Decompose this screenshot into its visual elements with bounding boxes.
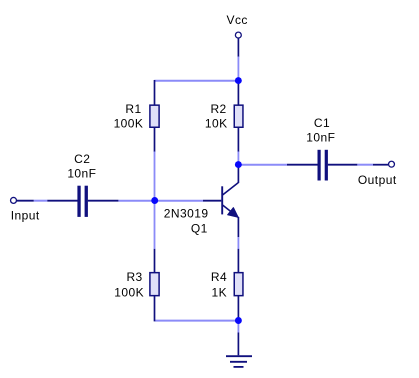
svg-text:Input: Input: [11, 209, 40, 223]
svg-text:R3: R3: [126, 270, 142, 284]
svg-text:R1: R1: [125, 102, 141, 116]
svg-text:C1: C1: [314, 116, 330, 130]
svg-text:1K: 1K: [212, 285, 228, 299]
svg-text:100K: 100K: [114, 285, 144, 299]
svg-text:100K: 100K: [114, 117, 144, 131]
svg-text:10K: 10K: [205, 117, 228, 131]
svg-text:Output: Output: [358, 173, 397, 187]
svg-text:2N3019: 2N3019: [164, 207, 209, 221]
svg-text:10nF: 10nF: [67, 166, 96, 180]
svg-text:10nF: 10nF: [306, 130, 335, 144]
svg-text:Q1: Q1: [191, 221, 208, 235]
svg-text:Vcc: Vcc: [227, 13, 248, 27]
svg-text:R4: R4: [211, 270, 227, 284]
svg-text:C2: C2: [74, 152, 90, 166]
svg-text:R2: R2: [210, 102, 226, 116]
